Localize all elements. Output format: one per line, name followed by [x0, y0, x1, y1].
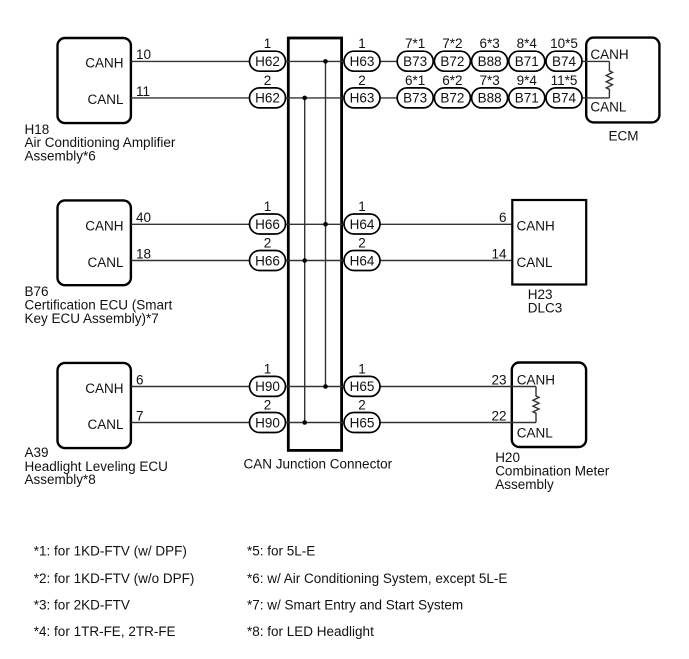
svg-text:2: 2 [264, 398, 272, 413]
svg-text:2: 2 [358, 73, 366, 88]
junction dot CANL row1 [302, 96, 307, 101]
connector H63 pin1 [344, 36, 380, 71]
svg-text:H64: H64 [350, 253, 375, 268]
svg-text:Assembly: Assembly [495, 477, 554, 492]
svg-text:18: 18 [136, 246, 151, 261]
svg-text:2: 2 [358, 236, 366, 251]
junction dot CANH row1 [323, 59, 328, 64]
terminating resistor inside ECM [606, 61, 612, 98]
svg-text:10: 10 [136, 47, 151, 62]
svg-text:*8: for LED Headlight: *8: for LED Headlight [247, 624, 374, 639]
connector H65 pin1 [344, 361, 380, 396]
svg-text:DLC3: DLC3 [528, 300, 563, 315]
connector H62 pin2 [250, 73, 286, 108]
wire CANL row2 B76 to DLC3 [131, 260, 512, 262]
connector B73 pin 7*1 [397, 36, 433, 71]
svg-text:B71: B71 [515, 91, 539, 106]
svg-text:14: 14 [491, 246, 507, 261]
svg-text:7*3: 7*3 [479, 73, 499, 88]
svg-text:23: 23 [491, 372, 506, 387]
connector H64 pin2 [344, 236, 380, 271]
svg-text:H66: H66 [255, 253, 280, 268]
svg-text:6*1: 6*1 [405, 73, 425, 88]
ECU box H18 Air Conditioning Amplifier Assembly [58, 38, 131, 123]
connector H63 pin2 [344, 73, 380, 108]
connector B74 pin 10*5 [546, 36, 582, 71]
svg-text:CANL: CANL [590, 99, 627, 114]
svg-text:CAN Junction Connector: CAN Junction Connector [244, 456, 393, 471]
svg-text:7*2: 7*2 [442, 36, 462, 51]
svg-text:*6: w/ Air Conditioning System: *6: w/ Air Conditioning System, except 5… [247, 571, 507, 586]
connector B88 pin 7*3 [472, 73, 508, 108]
svg-text:H65: H65 [350, 379, 375, 394]
svg-text:9*4: 9*4 [517, 73, 538, 88]
connector H64 pin1 [344, 199, 380, 234]
terminating resistor inside H20 Combination Meter [533, 387, 539, 423]
svg-text:B73: B73 [403, 54, 427, 69]
junction dot CANL row3 [302, 420, 307, 425]
svg-text:7*1: 7*1 [405, 36, 425, 51]
ECU box H20 Combination Meter Assembly [512, 363, 586, 448]
svg-text:*4: for 1TR-FE, 2TR-FE: *4: for 1TR-FE, 2TR-FE [34, 624, 176, 639]
junction dot CANL row2 [302, 258, 307, 263]
svg-text:2: 2 [264, 73, 272, 88]
svg-text:ECM: ECM [609, 129, 639, 144]
svg-text:10*5: 10*5 [550, 36, 578, 51]
connector B88 pin 6*3 [472, 36, 508, 71]
svg-text:B73: B73 [403, 91, 427, 106]
svg-text:H90: H90 [255, 379, 280, 394]
connector H90 pin2 [250, 398, 286, 433]
junction dot CANH row3 [323, 384, 328, 389]
junction dot CANH row2 [323, 222, 328, 227]
svg-text:B88: B88 [478, 54, 502, 69]
svg-text:B72: B72 [440, 54, 464, 69]
svg-text:H64: H64 [350, 217, 375, 232]
wire CANL row3 A39 to H20 [131, 422, 536, 424]
connector H66 pin1 [250, 199, 286, 234]
CAN Junction Connector box [288, 38, 341, 450]
svg-text:11: 11 [136, 84, 150, 99]
svg-text:1: 1 [358, 361, 366, 376]
ECU box B76 Certification ECU [58, 200, 131, 285]
svg-text:B71: B71 [515, 54, 539, 69]
ECU box A39 Headlight Leveling ECU [58, 363, 131, 448]
connector B72 pin 6*2 [434, 73, 470, 108]
svg-text:2: 2 [264, 236, 272, 251]
svg-text:CANL: CANL [517, 255, 554, 270]
connector H65 pin2 [344, 398, 380, 433]
svg-text:H66: H66 [255, 217, 280, 232]
svg-text:*5: for 5L-E: *5: for 5L-E [247, 544, 315, 559]
svg-text:*1: for 1KD-FTV (w/ DPF): *1: for 1KD-FTV (w/ DPF) [34, 544, 187, 559]
svg-text:11*5: 11*5 [551, 73, 578, 88]
svg-text:6: 6 [136, 372, 144, 387]
svg-text:22: 22 [491, 408, 506, 423]
connector B71 pin 9*4 [509, 73, 545, 108]
wire CANH row2 B76 to DLC3 [131, 223, 512, 225]
connector B74 pin 11*5 [546, 73, 582, 108]
svg-text:H62: H62 [255, 91, 280, 106]
svg-text:1: 1 [264, 361, 272, 376]
svg-text:6*3: 6*3 [479, 36, 499, 51]
connector B72 pin 7*2 [434, 36, 470, 71]
svg-text:H63: H63 [350, 91, 375, 106]
svg-text:CANH: CANH [517, 219, 555, 234]
svg-text:8*4: 8*4 [517, 36, 538, 51]
connector B73 pin 6*1 [397, 73, 433, 108]
svg-text:CANH: CANH [85, 219, 123, 234]
svg-text:CANL: CANL [87, 92, 124, 107]
svg-text:40: 40 [136, 210, 151, 225]
svg-text:CANH: CANH [590, 47, 628, 62]
connector box H23 DLC3 [512, 200, 586, 285]
svg-text:H62: H62 [255, 54, 280, 69]
svg-text:6*2: 6*2 [442, 73, 462, 88]
svg-text:B74: B74 [552, 91, 577, 106]
svg-text:Assembly*8: Assembly*8 [25, 472, 96, 487]
connector H66 pin2 [250, 236, 286, 271]
wire CANH row1 H18 to ECM [131, 60, 609, 62]
svg-text:CANL: CANL [87, 255, 124, 270]
wire CANH row3 A39 to H20 [131, 386, 536, 388]
svg-text:CANH: CANH [517, 373, 555, 388]
svg-text:7: 7 [136, 408, 144, 423]
svg-text:H65: H65 [350, 415, 375, 430]
svg-text:1: 1 [264, 199, 272, 214]
wire CANL bus inside junction connector [304, 98, 306, 423]
svg-text:B88: B88 [478, 91, 502, 106]
svg-text:H90: H90 [255, 415, 280, 430]
svg-text:*7: w/ Smart Entry and Start S: *7: w/ Smart Entry and Start System [247, 597, 463, 612]
connector H62 pin1 [250, 36, 286, 71]
svg-text:Assembly*6: Assembly*6 [25, 149, 96, 164]
wire CANL row1 H18 to ECM [131, 97, 609, 99]
ECU box ECM [586, 38, 659, 123]
svg-text:*2: for 1KD-FTV (w/o DPF): *2: for 1KD-FTV (w/o DPF) [34, 571, 195, 586]
svg-text:CANH: CANH [85, 56, 123, 71]
svg-text:6: 6 [499, 210, 507, 225]
svg-text:B74: B74 [552, 54, 577, 69]
svg-text:CANL: CANL [517, 425, 554, 440]
svg-text:CANH: CANH [85, 381, 123, 396]
svg-text:CANL: CANL [87, 417, 124, 432]
svg-text:H63: H63 [350, 54, 375, 69]
svg-text:B72: B72 [440, 91, 464, 106]
wire CANH bus inside junction connector [325, 61, 327, 386]
svg-text:1: 1 [264, 36, 272, 51]
svg-text:1: 1 [358, 199, 366, 214]
connector B71 pin 8*4 [509, 36, 545, 71]
svg-text:Key ECU Assembly)*7: Key ECU Assembly)*7 [25, 311, 159, 326]
connector H90 pin1 [250, 361, 286, 396]
svg-text:1: 1 [358, 36, 366, 51]
svg-text:*3: for 2KD-FTV: *3: for 2KD-FTV [34, 597, 130, 612]
svg-text:2: 2 [358, 398, 366, 413]
